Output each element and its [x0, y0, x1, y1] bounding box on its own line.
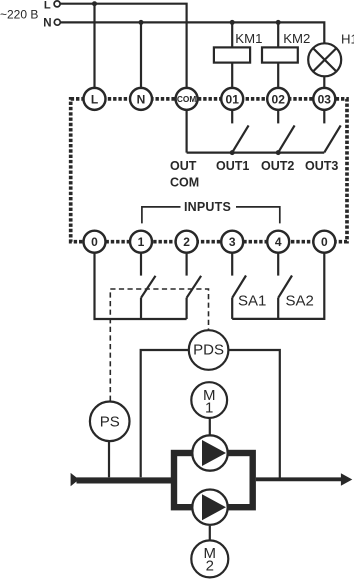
sensor PDS — [189, 330, 229, 370]
terminal input 1 — [130, 231, 152, 253]
wire N drop to terminal N — [140, 22, 142, 88]
node junction dot N/KM2 — [276, 20, 281, 25]
svg-text:INPUTS: INPUTS — [184, 200, 231, 214]
node junction dot N/terminal-N — [139, 20, 144, 25]
switch SA1 — [232, 253, 246, 319]
switch input2 — [187, 253, 202, 319]
svg-text:L: L — [91, 92, 98, 106]
terminal input 4 — [267, 231, 289, 253]
svg-text:H1: H1 — [341, 31, 354, 46]
contactor coil KM1 — [214, 47, 250, 62]
terminal 03 — [313, 88, 335, 110]
svg-text:SA1: SA1 — [238, 292, 266, 309]
pump P1 — [192, 435, 227, 470]
wire SA common to input0b — [232, 253, 324, 319]
inputs bracket — [142, 207, 280, 224]
wire input0 drop — [95, 253, 187, 319]
svg-text:OUT3: OUT3 — [305, 159, 338, 173]
svg-text:L: L — [44, 0, 51, 12]
wire PDS left tap — [141, 350, 189, 477]
svg-text:03: 03 — [318, 92, 332, 106]
svg-text:KM2: KM2 — [283, 31, 310, 46]
relay contact OUT3 — [324, 110, 340, 152]
svg-text:0: 0 — [91, 235, 98, 249]
wire L drop to terminal L — [93, 4, 95, 88]
svg-text:OUT1: OUT1 — [216, 159, 249, 173]
pump bypass loop — [174, 453, 253, 507]
svg-text:COM: COM — [177, 94, 196, 104]
switch input1 — [141, 253, 156, 319]
svg-text:SA2: SA2 — [286, 292, 314, 309]
node junction dot N/KM1 — [230, 20, 235, 25]
node L source terminal — [54, 1, 60, 7]
node N source terminal — [54, 19, 60, 25]
terminal 01 — [221, 88, 243, 110]
pump P2 — [192, 490, 227, 525]
motor M2 — [191, 540, 228, 577]
wire COM internal drop — [186, 110, 188, 153]
wire lamp H1 to terminal 03 — [323, 77, 325, 88]
wire PS tap — [108, 441, 110, 477]
pipe inlet arrow — [71, 473, 79, 486]
svg-text:2: 2 — [183, 235, 190, 249]
svg-text:~220 В: ~220 В — [0, 7, 38, 21]
node junction dot rail/OUT2 — [276, 150, 281, 155]
terminal input 3 — [221, 231, 243, 253]
wire L line — [60, 4, 186, 88]
svg-text:OUT: OUT — [170, 159, 197, 173]
svg-text:3: 3 — [229, 235, 236, 249]
relay contact OUT2 — [278, 110, 294, 152]
svg-text:1: 1 — [205, 399, 213, 416]
svg-text:N: N — [43, 18, 51, 30]
svg-text:2: 2 — [206, 558, 214, 575]
pipe outlet arrow — [341, 473, 352, 486]
svg-text:OUT2: OUT2 — [261, 159, 294, 173]
wire M1 to pump1 — [209, 418, 211, 436]
lamp H1 — [308, 43, 341, 76]
wire PDS right tap — [228, 350, 279, 478]
motor M1 — [191, 382, 227, 418]
svg-text:02: 02 — [272, 92, 286, 106]
wire KM1 coil to terminal 01 — [231, 63, 233, 88]
svg-text:COM: COM — [170, 175, 199, 189]
dashed link PS to contacts — [110, 289, 208, 401]
relay contact OUT1 — [232, 110, 248, 152]
contactor coil KM2 — [262, 47, 298, 62]
svg-text:KM1: KM1 — [235, 31, 262, 46]
sensor PS — [90, 402, 130, 442]
node junction dot L/terminal-L — [92, 1, 97, 6]
wire N line — [61, 22, 325, 43]
wire OUT common rail — [187, 152, 325, 154]
svg-text:1: 1 — [138, 235, 145, 249]
wire KM2 coil to terminal 02 — [277, 63, 279, 88]
terminal N — [130, 88, 152, 110]
terminal COM — [176, 88, 198, 110]
terminal L — [84, 88, 106, 110]
wire pump2 to M2 — [209, 526, 211, 541]
svg-text:0: 0 — [321, 235, 328, 249]
terminal 02 — [267, 88, 289, 110]
terminal input 2 — [176, 231, 198, 253]
pipe outlet line — [256, 477, 343, 481]
node junction dot rail/OUT1 — [230, 150, 235, 155]
svg-text:N: N — [137, 92, 146, 106]
switch SA2 — [278, 253, 292, 319]
terminal input 0 — [84, 231, 106, 253]
wire N drop to KM2 coil — [277, 22, 279, 47]
svg-text:01: 01 — [226, 92, 240, 106]
svg-text:PS: PS — [100, 413, 120, 430]
svg-text:4: 4 — [275, 235, 282, 249]
svg-text:PDS: PDS — [193, 341, 224, 358]
wire N drop to KM1 coil — [231, 22, 233, 47]
pipe inlet line — [77, 477, 173, 483]
terminal input 0b — [313, 231, 335, 253]
controller dotted border — [71, 99, 347, 242]
